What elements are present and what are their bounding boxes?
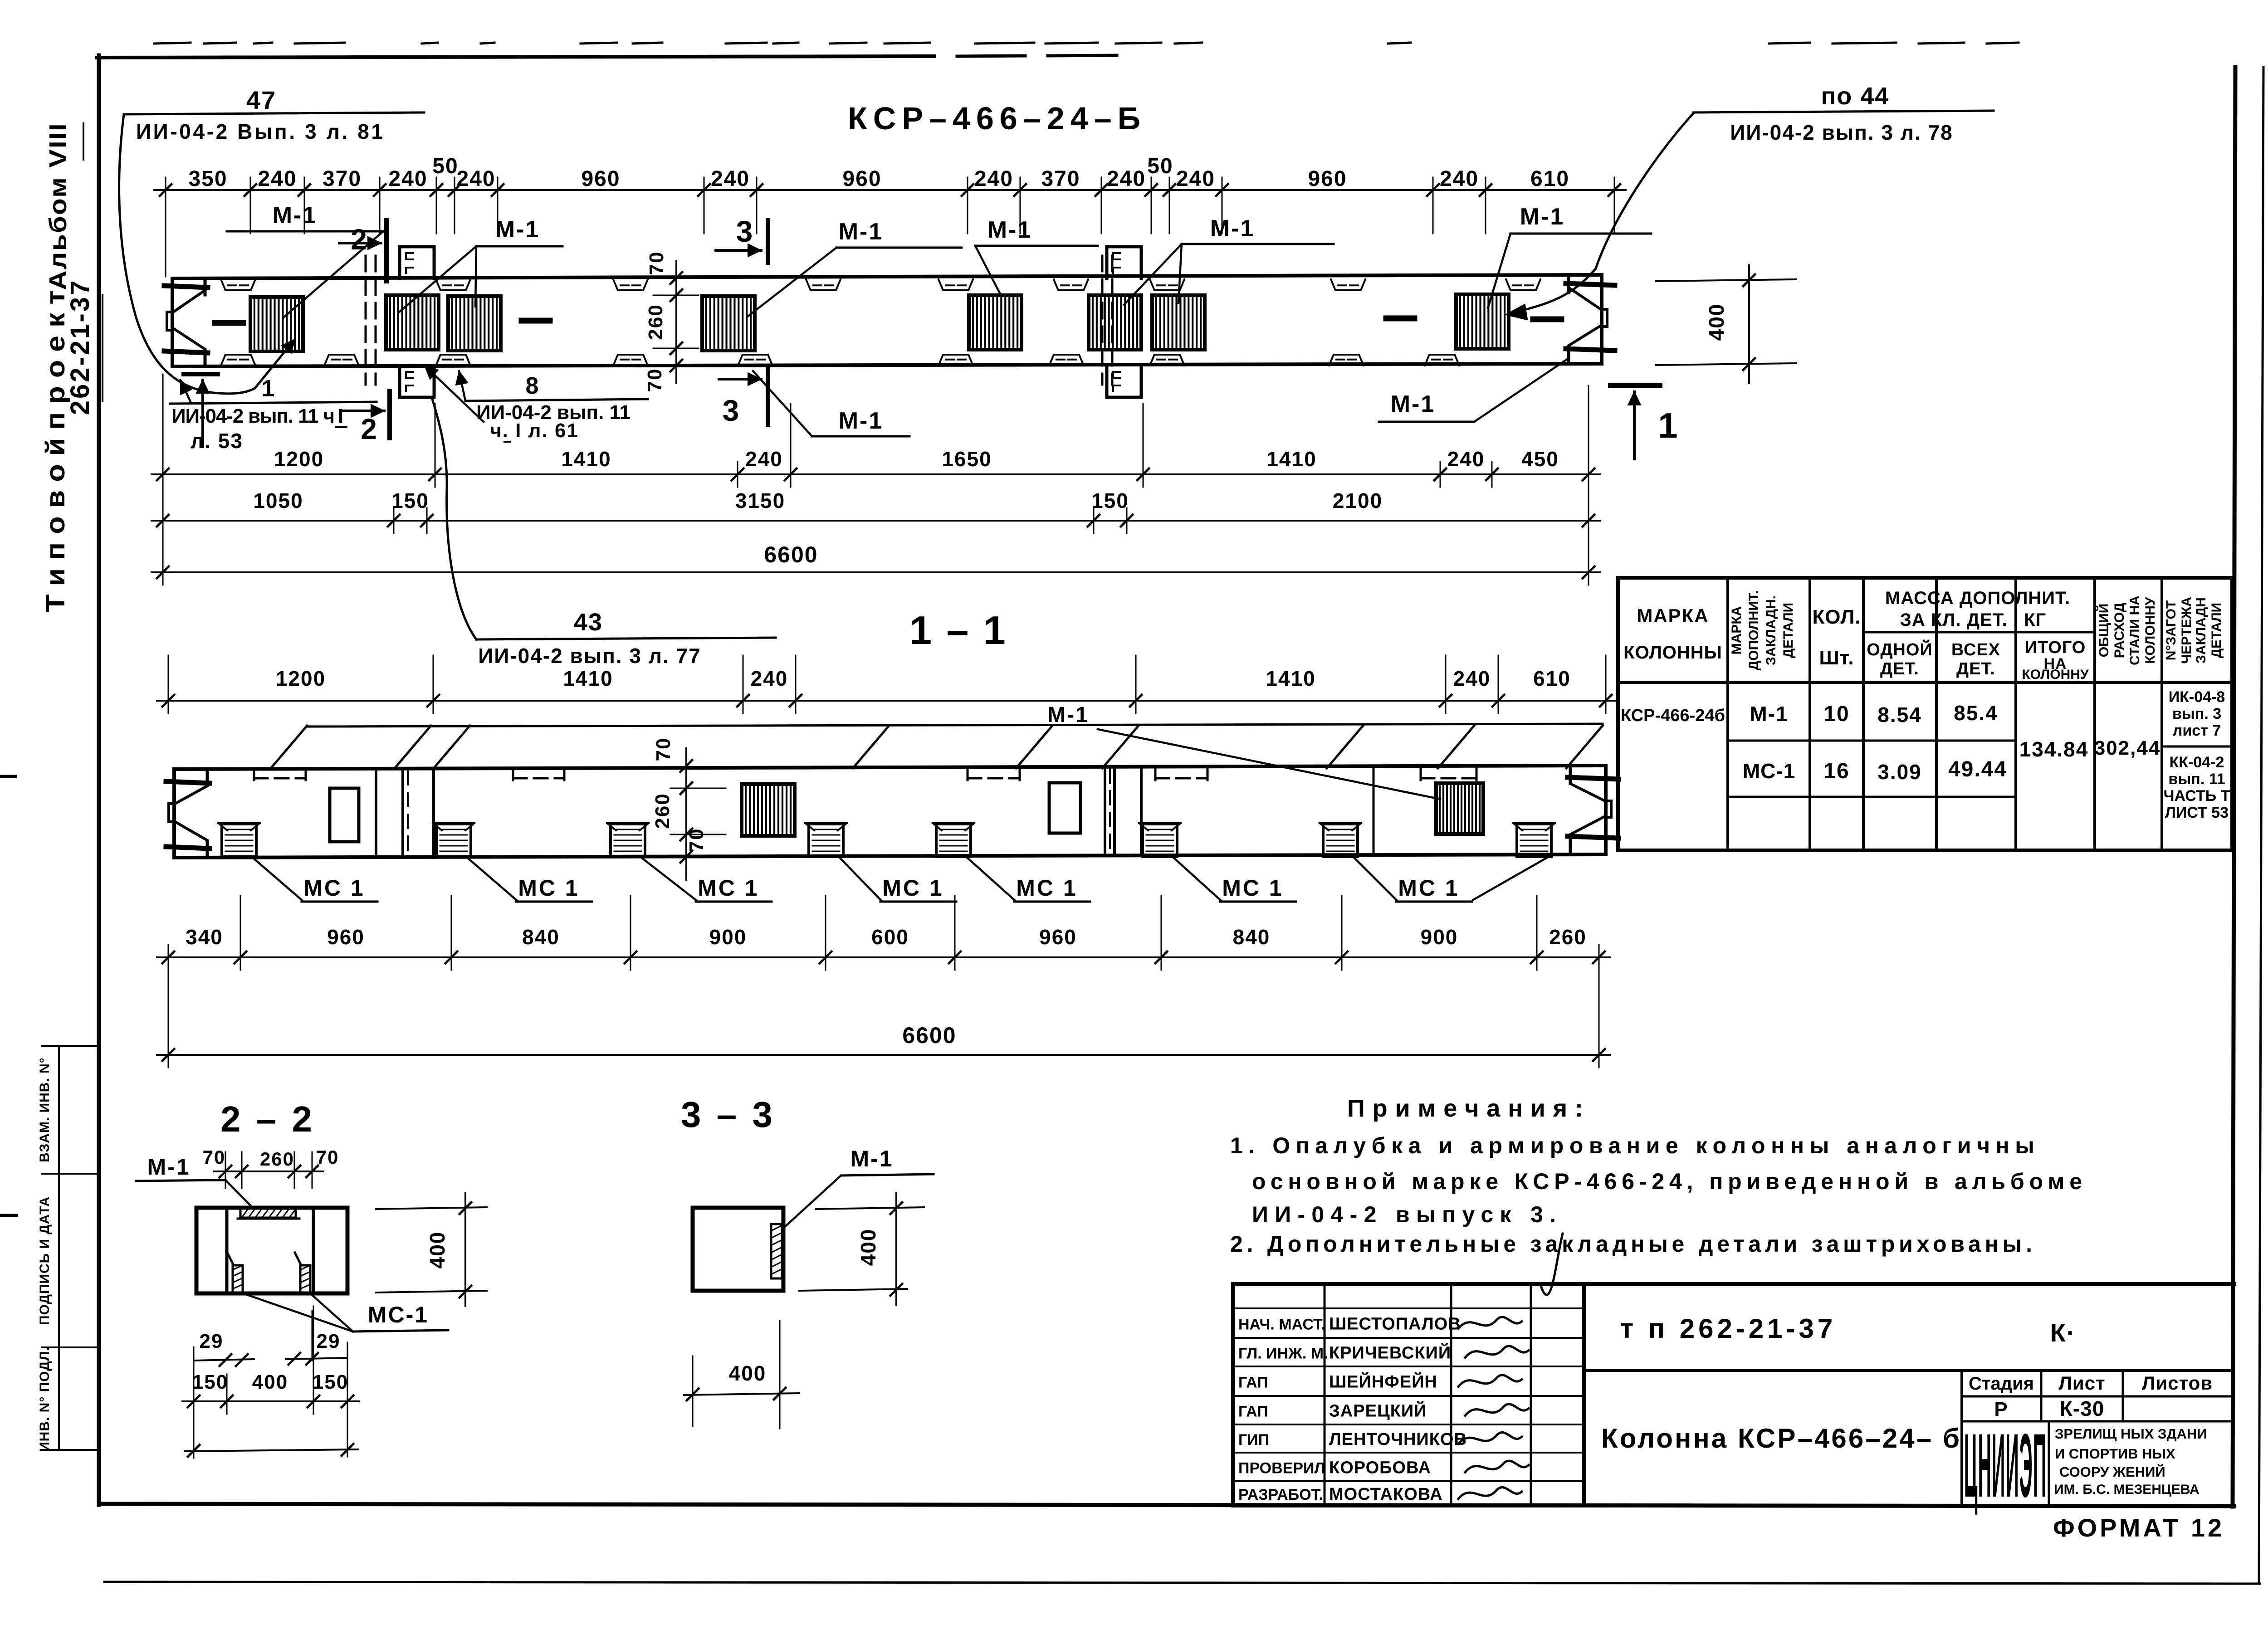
plan label M-1 below no2	[1379, 359, 1567, 422]
svg-text:ГАП: ГАП	[1238, 1374, 1268, 1391]
svg-text:70: 70	[645, 251, 668, 275]
svg-text:МС 1: МС 1	[698, 875, 759, 901]
plan embedded plate M-1 square 4	[702, 296, 755, 351]
svg-text:СООРУ ЖЕНИЙ: СООРУ ЖЕНИЙ	[2059, 1463, 2165, 1480]
svg-text:М-1: М-1	[1520, 204, 1565, 230]
svg-text:3: 3	[736, 215, 754, 248]
title block top edge right	[1584, 1282, 2234, 1286]
svg-text:вып. 3: вып. 3	[2172, 705, 2221, 722]
svg-text:610: 610	[1533, 667, 1571, 690]
sidebar stamp text podpis	[37, 1196, 52, 1325]
view 1-1 embedded plate M-1 B	[1436, 783, 1483, 834]
plan ref label 1	[170, 376, 376, 453]
plan top dim extension lines	[166, 197, 1614, 277]
svg-text:400: 400	[1705, 303, 1728, 341]
plan joint dashes J2	[1102, 256, 1112, 385]
title block letter K	[2050, 1318, 2076, 1347]
view 1-1 joint 1	[376, 769, 434, 858]
svg-text:ШЕЙНФЕЙН: ШЕЙНФЕЙН	[1329, 1371, 1437, 1392]
svg-text:240: 240	[456, 167, 495, 191]
plan dim row C 6600	[152, 542, 1600, 585]
svg-text:960: 960	[1039, 925, 1077, 949]
section 2-2 dim 70-260-70	[203, 1146, 339, 1188]
plan column top edge	[172, 275, 1602, 278]
section 2-2 dim bottom line	[185, 1444, 358, 1457]
scan artifact dashes top	[154, 43, 2019, 44]
svg-text:50: 50	[1147, 154, 1173, 178]
svg-text:600: 600	[871, 925, 909, 949]
svg-text:ЗАКЛАДН: ЗАКЛАДН	[2194, 597, 2209, 663]
svg-text:ИНВ. N° ПОДЛ.: ИНВ. N° ПОДЛ.	[37, 1346, 52, 1452]
sidebar stamp divider 3	[42, 1346, 99, 1348]
plan section marker 1 right	[1610, 385, 1679, 459]
table data 16	[1823, 759, 1849, 783]
view 1-1 bottom edge	[174, 854, 1606, 858]
svg-text:2: 2	[351, 223, 368, 256]
svg-text:340: 340	[186, 925, 223, 949]
view 1-1 plate MC-1 square 4	[805, 823, 847, 857]
svg-text:240: 240	[974, 167, 1013, 191]
plan ref label 8	[425, 366, 648, 442]
view 1-1 label MC-1 no7	[1354, 858, 1472, 902]
view 1-1 joint 2	[1105, 766, 1374, 855]
ref label 43	[432, 399, 776, 668]
plan column left fork end	[164, 278, 208, 366]
section 3-3 dim 400 bottom	[684, 1361, 799, 1400]
svg-text:МОСТАКОВА: МОСТАКОВА	[1329, 1485, 1443, 1504]
svg-text:260: 260	[645, 304, 667, 340]
svg-text:МАРКА: МАРКА	[1637, 605, 1709, 626]
view 1-1 dim extension 6600	[168, 966, 1599, 1063]
svg-text:ИТОГО: ИТОГО	[2025, 638, 2086, 657]
svg-text:ИИ-04-2 вып. 11 ч: ИИ-04-2 вып. 11 ч	[171, 405, 335, 427]
svg-text:РАСХОД: РАСХОД	[2112, 603, 2127, 658]
svg-text:К С Р – 4 6 6 – 2 4 – Б: К С Р – 4 6 6 – 2 4 – Б	[848, 101, 1140, 136]
svg-text:ЗАРЕЦКИЙ: ЗАРЕЦКИЙ	[1329, 1400, 1427, 1421]
svg-text:КСР-466-24б: КСР-466-24б	[1621, 706, 1725, 725]
notes line 1	[1230, 1133, 2034, 1158]
svg-text:1410: 1410	[1266, 447, 1316, 471]
svg-text:М-1: М-1	[839, 219, 884, 245]
view 1-1 dim row bottom	[157, 925, 1610, 970]
frame bottom border thin	[104, 1582, 2260, 1584]
plan centerline dashes	[215, 318, 1561, 323]
view 1-1 opening rect 2	[1049, 783, 1080, 833]
svg-text:260: 260	[260, 1148, 294, 1170]
plan label M-1 no2	[399, 216, 562, 312]
plan vertical dim 400	[1656, 265, 1796, 383]
plan section marker 2 top	[339, 220, 386, 281]
svg-text:М-1: М-1	[1391, 391, 1436, 417]
sidebar text Albom VIII	[44, 122, 83, 290]
svg-text:ПРОВЕРИЛ: ПРОВЕРИЛ	[1238, 1460, 1325, 1477]
svg-text:ЗРЕЛИЩ НЫХ ЗДАНИ: ЗРЕЛИЩ НЫХ ЗДАНИ	[2055, 1426, 2207, 1442]
view 1-1 plate MC-1 square 3	[607, 823, 649, 857]
drawing title KSR-466-24-B	[848, 101, 1140, 136]
svg-text:ИИ-04-2 выпуск 3.: ИИ-04-2 выпуск 3.	[1252, 1202, 1556, 1227]
plan dashed console marks top edge	[221, 279, 1540, 290]
svg-text:МС-1: МС-1	[1743, 759, 1795, 783]
svg-text:70: 70	[652, 737, 675, 761]
svg-text:ИК-04-8: ИК-04-8	[2169, 688, 2225, 706]
table data 85.4	[1954, 701, 1998, 725]
svg-text:29: 29	[317, 1330, 341, 1352]
title block signatures	[1458, 1317, 1529, 1499]
table data 134.84	[2019, 737, 2089, 761]
svg-text:ЦНИИЭП: ЦНИИЭП	[1964, 1415, 2047, 1516]
svg-text:ИИ-04-2 Вып. 3 л. 81: ИИ-04-2 Вып. 3 л. 81	[136, 120, 383, 143]
title block name kolonna	[1601, 1423, 1960, 1454]
section 2-2 plate M-1 top	[238, 1209, 299, 1219]
view 1-1 right fork end	[1568, 766, 1618, 854]
svg-text:М-1: М-1	[850, 1146, 893, 1171]
svg-text:240: 240	[1453, 667, 1491, 690]
svg-text:2: 2	[361, 413, 378, 445]
section 2-2 plate MC-1 right	[295, 1253, 310, 1293]
table header massa	[1885, 588, 2070, 630]
svg-text:70: 70	[644, 368, 666, 392]
svg-text:МС 1: МС 1	[303, 875, 365, 901]
svg-text:ВЗАМ. ИНВ. N°: ВЗАМ. ИНВ. N°	[37, 1057, 52, 1162]
section 2-2 dim 29-29	[194, 1330, 347, 1366]
view 1-1 dim extension top	[168, 655, 1606, 707]
table header odnoy det	[1867, 639, 1932, 678]
title block org line 1	[2055, 1426, 2207, 1442]
svg-text:16: 16	[1823, 759, 1849, 783]
svg-text:960: 960	[581, 167, 620, 191]
svg-text:ГАП: ГАП	[1238, 1403, 1268, 1420]
view 1-1 top edge	[174, 766, 1606, 769]
title block list	[2058, 1372, 2105, 1394]
view 1-1 label MC-1 no2	[467, 858, 592, 902]
svg-text:Шт.: Шт.	[1819, 647, 1854, 669]
view 1-1 plate MC-1 square 6	[1139, 823, 1181, 857]
svg-text:N°ЗАГОТ: N°ЗАГОТ	[2164, 600, 2179, 660]
plan embedded plate M-1 square 8	[1456, 294, 1509, 349]
section 3-3 dim 400 right	[799, 1193, 924, 1305]
section title 3-3	[681, 1094, 775, 1135]
svg-text:70: 70	[685, 828, 708, 852]
svg-text:150: 150	[313, 1371, 348, 1393]
frame right border thin	[2259, 67, 2263, 1584]
svg-text:260: 260	[1549, 925, 1587, 949]
svg-text:1: 1	[1658, 405, 1678, 445]
section 3-3 label M-1	[783, 1146, 934, 1228]
svg-text:400: 400	[856, 1229, 880, 1266]
plan section marker 3 top	[716, 215, 768, 263]
title block org line 3	[2059, 1463, 2165, 1480]
svg-text:3150: 3150	[735, 489, 785, 512]
svg-text:1410: 1410	[561, 447, 611, 471]
svg-text:П р и м е ч а н и я :: П р и м е ч а н и я :	[1347, 1095, 1583, 1122]
table data 3.09	[1877, 760, 1922, 784]
plan section marker 1 left	[184, 374, 218, 447]
svg-text:вып. 11: вып. 11	[2168, 771, 2225, 788]
svg-text:ЧЕРТЕЖА: ЧЕРТЕЖА	[2179, 597, 2194, 664]
plan column right fork end	[1566, 275, 1615, 364]
view 1-1 dim row 6600	[157, 1023, 1610, 1068]
table header nomer chertezha	[2164, 597, 2224, 664]
svg-text:лист 7: лист 7	[2173, 722, 2221, 739]
plan label M-1 no1	[227, 202, 383, 317]
svg-text:КОЛОННЫ: КОЛОННЫ	[1623, 643, 1722, 663]
view 1-1 label MC-1 no4	[840, 858, 956, 902]
view 1-1 label MC-1 no3	[641, 858, 772, 902]
view 1-1 plate MC-1 square 8	[1513, 823, 1555, 857]
svg-text:150: 150	[1091, 489, 1129, 512]
view 1-1 vertical dim 70-260-70	[651, 737, 726, 880]
section 3-3 plate M-1 strip	[771, 1224, 782, 1278]
svg-text:900: 900	[1421, 925, 1458, 949]
plan dim row B	[152, 489, 1600, 533]
svg-text:по 44: по 44	[1821, 83, 1890, 110]
svg-text:МС 1: МС 1	[1016, 875, 1077, 901]
svg-text:ДОПОЛНИТ.: ДОПОЛНИТ.	[1746, 590, 1761, 670]
svg-text:450: 450	[1521, 447, 1559, 471]
table data 302.44	[2094, 737, 2161, 759]
plan label M-1 below no1	[753, 371, 909, 436]
svg-text:240: 240	[711, 167, 750, 191]
svg-text:1650: 1650	[942, 447, 992, 471]
svg-text:ВСЕХ: ВСЕХ	[1951, 640, 2000, 659]
svg-text:ИИ-04-2 вып. 3 л. 77: ИИ-04-2 вып. 3 л. 77	[478, 644, 701, 668]
section 2-2 dim 150-400-150	[182, 1371, 359, 1414]
svg-text:ДЕТАЛИ: ДЕТАЛИ	[2209, 603, 2224, 658]
section 3-3 extension lines	[693, 1321, 780, 1429]
title block divider	[1584, 1369, 2233, 1372]
view 1-1 plate MC-1 square 7	[1320, 823, 1361, 857]
table header obshiy rashod	[2096, 595, 2158, 665]
view 1-1 label M-1	[1047, 703, 1440, 799]
svg-text:302,44: 302,44	[2094, 737, 2161, 759]
plan column bottom edge	[172, 364, 1602, 366]
svg-text:ДЕТ.: ДЕТ.	[1956, 659, 1995, 678]
svg-text:960: 960	[1308, 167, 1347, 191]
svg-text:ИМ. Б.С. МЕЗЕНЦЕВА: ИМ. Б.С. МЕЗЕНЦЕВА	[2054, 1482, 2200, 1497]
section 2-2 plate MC-1 left	[227, 1253, 243, 1293]
svg-text:610: 610	[1530, 167, 1569, 191]
table data 8.54	[1877, 703, 1922, 727]
svg-text:РАЗРАБОТ.: РАЗРАБОТ.	[1238, 1486, 1323, 1503]
svg-text:ГЛ. ИНЖ. М.: ГЛ. ИНЖ. М.	[1238, 1345, 1328, 1362]
sidebar stamp divider 4	[42, 1449, 99, 1451]
svg-text:л. 53: л. 53	[191, 429, 243, 453]
svg-text:240: 240	[751, 667, 788, 690]
view 1-1 roof fold lines	[271, 724, 1603, 768]
plan embedded plate M-1 square 7	[1152, 295, 1205, 350]
svg-text:400: 400	[729, 1361, 767, 1385]
svg-text:8: 8	[526, 373, 540, 399]
table data chertezh 1	[2169, 688, 2225, 739]
svg-text:3 – 3: 3 – 3	[681, 1094, 775, 1135]
table data KSR-466-24b	[1621, 706, 1725, 725]
svg-text:ч. І л. 61: ч. І л. 61	[490, 420, 579, 442]
table data 10	[1823, 702, 1849, 726]
svg-text:КОЛОННУ: КОЛОННУ	[2143, 597, 2158, 664]
view 1-1 opening rect	[330, 788, 359, 842]
svg-text:1410: 1410	[1266, 667, 1315, 690]
svg-text:2. Дополнительные закладные: 2. Дополнительные закладные детали заштр…	[1230, 1231, 2032, 1257]
svg-text:350: 350	[188, 167, 227, 191]
section 3-3 outline	[693, 1208, 783, 1291]
view 1-1 plate MC-1 square 2	[433, 823, 474, 857]
svg-text:1200: 1200	[276, 667, 326, 690]
view 1-1 plate MC-1 square 5	[933, 823, 974, 857]
plan cross console C1	[400, 247, 434, 397]
title block signature names	[1238, 1315, 1467, 1504]
table header vseh det	[1951, 640, 2000, 678]
svg-text:М-1: М-1	[147, 1154, 190, 1180]
svg-text:3: 3	[723, 394, 740, 427]
svg-text:М-1: М-1	[273, 202, 318, 229]
svg-text:СТАЛИ НА: СТАЛИ НА	[2127, 595, 2142, 665]
section 2-2 label M-1	[136, 1154, 254, 1209]
svg-text:240: 240	[388, 167, 427, 191]
svg-text:МС 1: МС 1	[1222, 875, 1283, 901]
svg-text:КРИЧЕВСКИЙ: КРИЧЕВСКИЙ	[1329, 1342, 1451, 1363]
section 2-2 label MC-1	[243, 1293, 448, 1332]
notes line 4	[1230, 1231, 2032, 1257]
view 1-1 label MC-1 no5	[967, 858, 1090, 902]
frame bottom border thick	[99, 1504, 2234, 1506]
svg-text:М-1: М-1	[495, 216, 540, 243]
plan cross console C2	[1107, 247, 1141, 397]
svg-text:К-30: К-30	[2060, 1397, 2105, 1420]
svg-text:М-1: М-1	[839, 408, 884, 434]
svg-text:240: 240	[1176, 167, 1215, 191]
svg-text:6600: 6600	[764, 542, 818, 567]
svg-text:840: 840	[1233, 925, 1271, 949]
svg-text:1200: 1200	[274, 447, 324, 471]
svg-text:262-21-37: 262-21-37	[65, 279, 95, 415]
svg-text:400: 400	[425, 1231, 449, 1269]
svg-text:Листов: Листов	[2142, 1372, 2213, 1394]
plan label M-1 no5	[1124, 215, 1334, 305]
plan dashed console marks bottom edge	[221, 355, 1459, 366]
svg-text:ЗАКЛАДН.: ЗАКЛАДН.	[1764, 595, 1779, 665]
svg-text:49.44: 49.44	[1948, 757, 2007, 781]
svg-text:70: 70	[203, 1146, 226, 1168]
paper fold marks	[0, 776, 16, 1215]
svg-text:960: 960	[327, 925, 365, 949]
ref label po 44	[1693, 83, 1994, 144]
plan section marker 2 bottom	[343, 391, 390, 445]
view 1-1 dim row top	[157, 667, 1617, 713]
svg-text:М-1: М-1	[1750, 702, 1788, 726]
svg-text:М-1: М-1	[987, 217, 1032, 243]
notes line 3	[1252, 1202, 1556, 1227]
plan embedded plate M-1 square 2	[386, 295, 439, 350]
table grid	[1618, 578, 2232, 850]
svg-text:Альбом VIII: Альбом VIII	[44, 122, 72, 290]
svg-text:т п 262-21-37: т п 262-21-37	[1620, 1313, 1837, 1344]
view 1-1 embedded plate M-1 A	[742, 784, 795, 836]
table data MS-1	[1743, 759, 1795, 783]
view 1-1 dashed plate marks	[254, 768, 1476, 780]
svg-text:85.4: 85.4	[1954, 701, 1998, 725]
svg-text:ШЕСТОПАЛОВ: ШЕСТОПАЛОВ	[1329, 1315, 1461, 1334]
svg-text:370: 370	[323, 167, 362, 191]
svg-text:МС 1: МС 1	[882, 875, 943, 901]
svg-text:1: 1	[262, 376, 276, 402]
svg-text:МС-1: МС-1	[368, 1302, 429, 1327]
svg-text:240: 240	[258, 167, 297, 191]
svg-text:134.84: 134.84	[2019, 737, 2089, 761]
svg-text:240: 240	[745, 447, 783, 471]
notes line 2	[1252, 1169, 2082, 1194]
svg-text:240: 240	[1440, 167, 1479, 191]
svg-text:8.54: 8.54	[1877, 703, 1922, 727]
sidebar stamp text inv	[37, 1346, 52, 1452]
svg-text:І: І	[338, 405, 344, 427]
section 2-2 extension lines	[194, 1306, 347, 1458]
frame left border	[97, 55, 101, 1505]
svg-text:ЗА КЛ. ДЕТ. , КГ: ЗА КЛ. ДЕТ. , КГ	[1900, 610, 2046, 630]
svg-text:ПОДПИСЬ И ДАТА: ПОДПИСЬ И ДАТА	[37, 1196, 52, 1325]
svg-text:Лист: Лист	[2058, 1372, 2105, 1394]
section 2-2 outline	[196, 1208, 347, 1293]
ref label po 44 leader	[1505, 113, 1693, 320]
plan dim row A	[152, 447, 1600, 487]
svg-text:КОЛ.: КОЛ.	[1812, 606, 1861, 628]
sidebar text Tipovoy proekt	[41, 290, 70, 612]
svg-text:ИИ-04-2 вып. 3 л. 78: ИИ-04-2 вып. 3 л. 78	[1730, 121, 1953, 144]
svg-text:50: 50	[432, 154, 458, 178]
view 1-1 label MC-1 no1	[253, 858, 377, 902]
ref label 47 leader	[119, 114, 295, 394]
svg-text:КК-04-2: КК-04-2	[2170, 754, 2224, 771]
svg-text:КОРОБОВА: КОРОБОВА	[1329, 1459, 1431, 1478]
title block logo TsNIIEP	[1964, 1415, 2047, 1516]
sidebar stamp text vzam	[37, 1057, 52, 1162]
svg-text:400: 400	[252, 1371, 288, 1393]
svg-text:КОЛОННУ: КОЛОННУ	[2022, 667, 2089, 682]
view 1-1 dim extension bottom	[240, 896, 1537, 964]
table header itogo	[2022, 638, 2089, 682]
title block cell tp 262-21-37	[1620, 1313, 1837, 1344]
plan section marker 3 bottom	[719, 369, 768, 427]
svg-text:И СПОРТИВ НЫХ: И СПОРТИВ НЫХ	[2055, 1446, 2175, 1462]
title block listov	[2142, 1372, 2213, 1394]
svg-text:900: 900	[709, 925, 747, 949]
svg-text:ЛИСТ 53: ЛИСТ 53	[2165, 804, 2229, 821]
svg-text:960: 960	[842, 167, 881, 191]
title block stadia R	[1994, 1398, 2008, 1420]
svg-text:ОДНОЙ: ОДНОЙ	[1867, 639, 1932, 659]
svg-text:10: 10	[1823, 702, 1849, 726]
view 1-1 plate MC-1 square 1	[218, 823, 260, 857]
table data M-1	[1750, 702, 1788, 726]
svg-text:29: 29	[200, 1330, 224, 1352]
view 1-1 leader last square	[1473, 856, 1549, 900]
plan dim extension lines A	[163, 374, 1589, 580]
format label	[2053, 1513, 2224, 1542]
title block subtable grid	[1962, 1371, 2233, 1506]
title block list K-30	[2060, 1397, 2105, 1420]
view 1-1 label MC-1 no6	[1173, 858, 1296, 902]
svg-text:М-1: М-1	[1210, 215, 1255, 242]
svg-text:ЧАСТЬ Т: ЧАСТЬ Т	[2164, 787, 2230, 805]
plan label M-1 no3	[748, 219, 962, 317]
svg-text:К·: К·	[2050, 1318, 2076, 1347]
view 1-1 left fork end	[166, 769, 210, 858]
plan top dimension row	[154, 154, 1626, 203]
svg-text:ГИП: ГИП	[1238, 1431, 1269, 1449]
section title 2-2	[220, 1099, 315, 1139]
svg-text:НАЧ. МАСТ.: НАЧ. МАСТ.	[1238, 1316, 1325, 1333]
plan embedded plate M-1 square 6	[1089, 295, 1141, 350]
svg-text:370: 370	[1041, 167, 1080, 191]
